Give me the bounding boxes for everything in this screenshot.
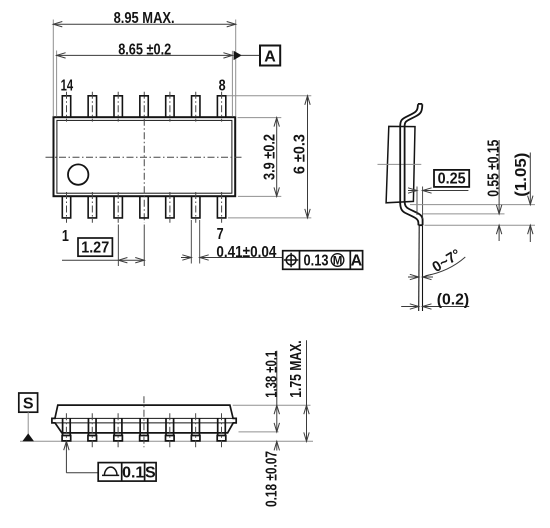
top view: vertical centerline (pin 4 column)	[143, 92, 145, 223]
end view: gray reference line at lead kink	[423, 213, 505, 215]
svg-text:0.25: 0.25	[438, 170, 466, 187]
dimension 3.9 body width	[276, 118, 278, 197]
svg-text:0.55 ±0.15: 0.55 ±0.15	[485, 140, 502, 197]
svg-text:A: A	[351, 253, 363, 270]
side view: lead 1 centerline	[65, 413, 67, 447]
svg-text:0.1: 0.1	[122, 465, 144, 482]
end view: gray seating plane line	[425, 224, 536, 226]
top view: lower pin 2	[88, 196, 96, 218]
dimension 0.18	[276, 441, 278, 450]
side view: lead 7 centerline	[221, 413, 223, 447]
svg-text:8.95 MAX.: 8.95 MAX.	[114, 10, 175, 27]
side view: lead 1	[62, 418, 64, 435]
svg-text:14: 14	[61, 78, 74, 95]
top view: lower pin 7	[217, 196, 225, 218]
dimension 0.55	[498, 140, 500, 214]
top view: upper pin 13 centerline	[91, 92, 93, 122]
datum S stem	[27, 412, 29, 434]
dimension 1.27 leader and arrows	[62, 259, 144, 261]
dimension 1.27 boxed (pin pitch)	[78, 238, 112, 256]
dimension 3.9 extension lines	[238, 117, 282, 119]
top view: lower pin 5 centerline	[169, 192, 171, 223]
end view: gray reference line at body bottom	[410, 204, 535, 206]
dimension 6 extension lines	[227, 95, 312, 97]
svg-text:0.13: 0.13	[304, 253, 329, 270]
side view: lead 6	[191, 418, 193, 435]
top view: lower pin 3	[114, 196, 122, 218]
position symbol	[286, 255, 296, 265]
side view: lead 4	[139, 418, 141, 435]
top view: lower pin 6	[192, 196, 200, 218]
svg-text:S: S	[23, 395, 34, 412]
top view: upper pin 11	[140, 96, 148, 118]
dimension 1.38	[276, 351, 278, 432]
svg-text:8.65 ±0.2: 8.65 ±0.2	[118, 41, 171, 58]
datum A feature triangle	[234, 51, 242, 60]
end view: lower lead foot	[400, 203, 418, 225]
top view: lower pin 2 centerline	[91, 192, 93, 223]
M modifier circle	[331, 254, 344, 267]
datum S triangle	[22, 433, 34, 441]
svg-text:(1.05): (1.05)	[513, 153, 530, 197]
top view: horizontal centerline	[46, 156, 243, 158]
top view: package body inner edge	[57, 120, 232, 193]
end view: body outline	[386, 126, 415, 202]
pin 3 centerline extension	[117, 225, 119, 267]
dimension 1.75 MAX	[306, 340, 308, 441]
top view: lower pin 4	[140, 196, 148, 218]
side view: seating plane line	[20, 440, 313, 442]
angle 0~7 arc	[426, 257, 466, 276]
side view: lead 2 centerline	[91, 413, 93, 447]
dimension 0.25 box	[434, 170, 469, 187]
dimension (0.2)	[401, 306, 419, 308]
dimension 0.25 arrows and leader	[408, 190, 417, 192]
side view: lead 5	[165, 418, 167, 435]
svg-text:6 ±0.3: 6 ±0.3	[291, 134, 308, 174]
top view: lower pin 6 centerline	[195, 192, 197, 223]
leader to datum A box	[241, 54, 260, 56]
side view: lead 2	[87, 418, 89, 435]
svg-text:7: 7	[217, 226, 224, 243]
end view: lead vertical section	[399, 126, 401, 204]
top view: upper pin 9	[192, 96, 200, 118]
top view: lower pin 1 centerline	[66, 192, 68, 223]
datum A box	[260, 46, 280, 66]
svg-text:0.18 ±0.07: 0.18 ±0.07	[263, 451, 280, 507]
top view: upper pin 9 centerline	[195, 92, 197, 122]
side view: lead 5 centerline	[169, 413, 171, 447]
end view: body centerline	[378, 163, 422, 165]
top view: upper pin 10	[166, 96, 174, 118]
top view: upper pin 14 centerline	[66, 92, 68, 122]
dimension 8.65 extension lines	[56, 51, 58, 117]
flatness leader arrow	[64, 441, 69, 450]
svg-text:1.27: 1.27	[81, 240, 109, 257]
datum S box	[19, 393, 38, 412]
svg-text:S: S	[145, 465, 156, 482]
dimension 0.41 arrows	[181, 257, 191, 259]
side view: mold parting lines	[55, 417, 233, 419]
top view: upper pin 8 centerline	[221, 92, 223, 122]
top view: upper pin 10 centerline	[169, 92, 171, 122]
feature control frame: seating plane flatness 0.1 S	[98, 463, 156, 482]
top view: lower pin 1	[62, 196, 70, 218]
dimension 6 overall width	[307, 96, 309, 218]
feature control frame: position 0.13 M A	[283, 251, 363, 270]
top view: upper pin 14	[62, 96, 70, 118]
dimension (1.05)	[529, 153, 531, 205]
side view: lead 3 centerline	[117, 413, 119, 447]
top view: package body outline	[54, 117, 236, 196]
top view: lower pin 3 centerline	[117, 192, 119, 223]
side view: lead 7	[217, 418, 219, 435]
svg-text:(0.2): (0.2)	[437, 292, 470, 309]
side view: lead 6 centerline	[195, 413, 197, 447]
top view: upper pin 12 centerline	[117, 92, 119, 122]
svg-text:3.9 ±0.2: 3.9 ±0.2	[261, 134, 278, 180]
side view: body outline	[52, 405, 236, 433]
svg-text:1.75 MAX.: 1.75 MAX.	[288, 340, 305, 398]
top view: lower pin 5	[166, 196, 174, 218]
svg-text:1.38 ±0.1: 1.38 ±0.1	[263, 351, 280, 398]
side view: lead 3	[113, 418, 115, 435]
svg-text:8: 8	[219, 78, 226, 95]
dimension 0.41 extension lines (pin 6 edges)	[190, 220, 192, 264]
angle 0~7 arrows	[408, 276, 419, 278]
svg-text:1: 1	[62, 228, 69, 245]
svg-text:M: M	[333, 255, 343, 267]
top view: pin 1 index circle	[68, 164, 88, 184]
end view: lead foot angle lines	[418, 226, 421, 312]
top view: upper pin 8	[217, 96, 225, 118]
top view: upper pin 12	[114, 96, 122, 118]
svg-text:0.41±0.04: 0.41±0.04	[216, 244, 276, 261]
side view dimension extension lines	[233, 404, 311, 406]
seating plane symbol	[102, 467, 119, 475]
dimension 8.65	[57, 54, 233, 56]
svg-text:A: A	[264, 49, 276, 66]
top view: lower pin 7 centerline	[221, 192, 223, 223]
end view: upper lead hook	[400, 104, 418, 126]
dimension 8.95 MAX	[53, 23, 235, 25]
side view: central lead centerline	[143, 396, 145, 447]
top view: upper pin 13	[88, 96, 96, 118]
dimension 8.95 MAX extension lines	[52, 20, 54, 117]
dimension 0.25 extension lines	[416, 187, 418, 216]
